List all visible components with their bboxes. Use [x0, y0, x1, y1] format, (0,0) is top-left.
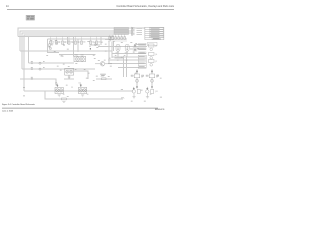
wire drop Q [111, 42, 113, 58]
svg-text:U9: U9 [156, 76, 158, 78]
capacitor C23 [115, 37, 117, 40]
wire drop M5 [100, 36, 102, 45]
supply arrow A3 [133, 87, 135, 90]
diode D5 [133, 45, 137, 47]
svg-text:Controller Board Schematics, O: Controller Board Schematics, Overlays an… [116, 5, 174, 8]
transistor Q1 [95, 62, 112, 66]
wire drop M6 [108, 41, 110, 64]
header rule [7, 9, 174, 11]
svg-text:U4: U4 [78, 83, 80, 85]
svg-text:U6B: U6B [81, 55, 84, 57]
wire drop R [113, 42, 115, 51]
op-amp U6B [80, 55, 84, 62]
wire net F3 [64, 78, 74, 80]
resistor R41 [131, 75, 133, 76]
wire net AA [118, 66, 146, 68]
pin 2 [132, 29, 133, 30]
wire drop AI [126, 51, 128, 57]
capacitor C32 [31, 68, 32, 70]
ground below R30 [62, 100, 65, 103]
svg-text:C5: C5 [71, 87, 73, 89]
net list box NB1 [138, 55, 146, 68]
pin 6 [132, 34, 133, 35]
bus wire 4 [24, 35, 114, 91]
diode D3 [109, 39, 111, 41]
supply arrow above U3 [57, 84, 58, 87]
net flag NF1 [139, 44, 147, 46]
supply arrow A4 [147, 87, 149, 90]
capacitor C8 [63, 44, 65, 47]
svg-text:Q7: Q7 [155, 61, 157, 63]
wire net L [112, 56, 146, 58]
radio thumbnail block [26, 15, 35, 20]
node N1 [94, 42, 97, 45]
wire net V [115, 57, 124, 59]
wire drop M4 [77, 39, 79, 52]
resistor R43 [146, 75, 148, 76]
wire drop AJ [68, 75, 70, 79]
net flag NF2 [139, 48, 147, 50]
wire drop AH [117, 51, 119, 57]
transistor Q11 [146, 89, 158, 96]
wire drop U [125, 56, 127, 77]
svg-text:R22: R22 [101, 76, 104, 78]
wire drop B [27, 36, 29, 63]
svg-text:VR3: VR3 [116, 53, 119, 55]
node P4 [39, 68, 41, 70]
oscillator U4 [78, 83, 86, 94]
wire drop N [67, 36, 69, 44]
wire net M2 [48, 38, 128, 40]
wire drop M3 [48, 39, 60, 53]
supply arrow A2 [151, 69, 153, 72]
capacitor C7 [56, 42, 58, 45]
pin 1 [132, 27, 133, 28]
cap stubs [110, 35, 125, 37]
wire drop AE [151, 70, 153, 74]
capacitor C33 [31, 78, 32, 80]
svg-text:Q11: Q11 [155, 91, 158, 93]
wire under caps [108, 40, 127, 42]
connector J2 [132, 27, 135, 36]
capacitor C24 [118, 37, 120, 40]
wire drop AG [151, 78, 153, 86]
wire net F2 [96, 78, 112, 80]
resistor row under bus [50, 36, 101, 44]
wire net AC [130, 48, 146, 50]
svg-text:U8: U8 [141, 76, 143, 78]
resistor R104 [68, 36, 73, 44]
resistor R107 [90, 36, 95, 44]
diode D6 [133, 49, 137, 51]
wire net H [45, 91, 123, 99]
wire net Z [108, 63, 146, 65]
wire drop AD [136, 70, 138, 74]
ground below U4 [81, 95, 84, 97]
wire net J [98, 46, 147, 48]
capacitor C26 [124, 37, 126, 40]
bus wire 3 [22, 33, 132, 69]
regulator U9 [149, 74, 158, 82]
wire net AB [134, 43, 146, 45]
svg-text:VR4: VR4 [125, 53, 128, 55]
resistor R22 [101, 76, 106, 80]
svg-text:Q6: Q6 [155, 54, 157, 56]
bus wire 1 [18, 28, 145, 36]
wire net C [20, 50, 112, 52]
net flag NF3 [139, 52, 147, 54]
varistor VR5 [116, 44, 121, 54]
resistor R105 [75, 36, 80, 44]
svg-text:June 4, 2003: June 4, 2003 [2, 111, 13, 113]
resistor R44 [157, 75, 159, 76]
capacitor C31 [31, 62, 32, 64]
resistor R42 [142, 75, 144, 76]
capacitor row under U1 [108, 35, 127, 42]
capacitor C21 [109, 37, 111, 40]
svg-text:SPK-: SPK- [121, 98, 125, 100]
pin 4 [132, 31, 133, 32]
resistor R4 [49, 44, 53, 47]
supply arrow A1 [136, 69, 138, 72]
resistor R108 [96, 36, 101, 44]
wire net E [22, 68, 95, 70]
svg-text:R4: R4 [51, 45, 53, 47]
ground below Q11 [146, 97, 149, 99]
ground arrow below U8 [136, 87, 138, 89]
wire net A [18, 35, 114, 37]
ground below Q10 [132, 97, 135, 99]
label Y1 [100, 74, 106, 76]
svg-text:TP1: TP1 [94, 42, 97, 44]
wire net S [105, 39, 114, 41]
wire net W [74, 71, 88, 79]
footer rule [2, 107, 158, 109]
wire drop P [73, 36, 75, 56]
resistor R106 [81, 36, 86, 44]
resistor R102 [56, 36, 61, 44]
wire net D [28, 62, 74, 64]
wire net M [59, 53, 96, 55]
table cell row4 [150, 34, 164, 35]
connector pin labels [137, 28, 143, 35]
op-amp U6A [74, 54, 86, 62]
filter FL1 [65, 68, 74, 75]
wire net K [112, 53, 146, 55]
resistor R101 [50, 36, 55, 44]
wire drop T [123, 56, 125, 77]
wire net F [20, 79, 56, 86]
resistor R5 [49, 48, 51, 50]
ground arrow below U9 [151, 87, 153, 89]
wire stub X [91, 41, 100, 45]
component value labels [23, 37, 162, 101]
IC U1 shield block [114, 27, 129, 34]
capacitor C25 [121, 37, 123, 40]
node P3 [39, 62, 41, 64]
svg-text:Figure 3-4. Controller Board S: Figure 3-4. Controller Board Schematic [2, 103, 35, 106]
ground below FL1 [68, 77, 71, 78]
signal table TB1 [145, 27, 164, 40]
sub box B2 [148, 42, 158, 45]
pin 5 [132, 33, 133, 34]
table cell row6 [152, 38, 161, 39]
transistor Q5 [149, 44, 158, 51]
wire drop AF [136, 78, 138, 86]
varistor VR6 [125, 44, 130, 54]
wire net Y [108, 59, 146, 61]
bus wire 2 [20, 31, 132, 51]
transistor Q10 [132, 89, 140, 96]
table cell row3 [150, 32, 164, 33]
table cell row1 [150, 28, 164, 29]
pin 3 [132, 30, 133, 31]
resistor R30 [61, 98, 66, 100]
capacitor C22 [112, 37, 114, 40]
regulator U8 [134, 74, 143, 82]
table cell row5 [150, 36, 164, 37]
table cell row2 [150, 30, 164, 31]
transistor Q7 [149, 60, 158, 67]
svg-text:U3: U3 [55, 83, 57, 85]
oscillator U3 [55, 83, 63, 94]
supply arrow above U4 [80, 84, 81, 87]
transistor Q6 [149, 53, 158, 60]
resistor R103 [62, 36, 67, 44]
junction dot [90, 48, 91, 49]
svg-text:6881094C31: 6881094C31 [155, 109, 165, 111]
wire net G [24, 90, 133, 92]
ground below U3 [58, 95, 61, 97]
